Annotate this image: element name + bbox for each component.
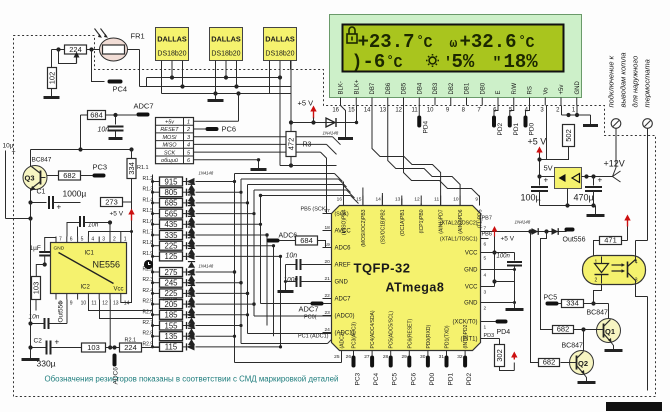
svg-text:C: C	[424, 35, 433, 52]
svg-text:MOSI: MOSI	[162, 135, 177, 141]
svg-text:224: 224	[124, 343, 137, 352]
svg-text:682: 682	[543, 358, 556, 367]
svg-text:15: 15	[356, 197, 362, 203]
svg-text:3: 3	[102, 237, 105, 243]
svg-text:GND: GND	[464, 268, 478, 274]
svg-text:общий: общий	[161, 157, 178, 164]
svg-text:GND: GND	[54, 246, 65, 252]
svg-text:10n: 10n	[286, 253, 298, 260]
svg-text:PD1: PD1	[448, 372, 455, 385]
svg-text:2: 2	[113, 237, 116, 243]
svg-text:31: 31	[439, 354, 445, 360]
svg-text:TQFP-32: TQFP-32	[354, 261, 411, 276]
svg-text:PC5: PC5	[392, 372, 399, 385]
svg-text:Обозначения резисторов показан: Обозначения резисторов показаны в соотве…	[45, 375, 339, 384]
svg-text:PD4: PD4	[422, 120, 429, 133]
svg-text:Q1: Q1	[605, 327, 615, 336]
svg-text:805: 805	[164, 188, 178, 197]
svg-text:2: 2	[186, 127, 190, 133]
svg-text:SCK: SCK	[164, 150, 176, 156]
svg-text:684: 684	[90, 111, 103, 120]
svg-text:PD0(RXD): PD0(RXD)	[426, 325, 432, 349]
svg-text:18: 18	[325, 225, 331, 231]
svg-text:15: 15	[348, 108, 355, 114]
svg-text:Vo: Vo	[543, 87, 549, 95]
svg-text:100n: 100n	[497, 254, 511, 260]
svg-text:+5 V: +5 V	[110, 211, 124, 218]
svg-text:(XTAL1/TOSC1): (XTAL1/TOSC1)	[440, 237, 478, 243]
svg-text:472: 472	[287, 138, 296, 151]
svg-text:подключение к: подключение к	[607, 55, 616, 107]
svg-text:155: 155	[164, 321, 178, 330]
svg-text:Q3: Q3	[25, 174, 35, 183]
svg-text:16: 16	[337, 197, 343, 203]
svg-text:4: 4	[484, 273, 487, 279]
svg-text:302: 302	[495, 349, 504, 362]
svg-text:PC5(ADC5/SCL): PC5(ADC5/SCL)	[389, 311, 395, 349]
svg-text:DB2: DB2	[449, 82, 455, 94]
svg-text:PD1(TXD): PD1(TXD)	[445, 325, 451, 348]
svg-text:685: 685	[164, 199, 178, 208]
svg-text:AREF: AREF	[335, 263, 351, 269]
svg-text:PC6: PC6	[410, 372, 417, 385]
svg-text:PC3: PC3	[355, 372, 362, 385]
svg-text:23: 23	[325, 310, 331, 316]
svg-text:RESET: RESET	[160, 127, 179, 133]
svg-text:DB1: DB1	[465, 82, 471, 94]
svg-text:PC1 (ADC1): PC1 (ADC1)	[298, 334, 329, 340]
svg-text:BC847: BC847	[562, 343, 584, 350]
svg-text:1N4148: 1N4148	[515, 220, 531, 225]
svg-text:9: 9	[475, 197, 478, 203]
svg-text:682: 682	[557, 325, 570, 334]
svg-text:+: +	[55, 338, 60, 347]
svg-text:C: C	[526, 35, 535, 52]
svg-text:PC0(: PC0(	[304, 315, 317, 321]
svg-text:+: +	[544, 176, 549, 185]
svg-text:135: 135	[164, 332, 178, 341]
svg-text:PB6: PB6	[482, 232, 492, 238]
svg-text:-6: -6	[363, 51, 386, 73]
svg-text:Out556: Out556	[563, 237, 586, 244]
svg-text:R/W: R/W	[512, 83, 518, 95]
svg-text:(MISO)PB4: (MISO)PB4	[342, 209, 348, 235]
svg-text:273: 273	[105, 198, 118, 207]
svg-text:PC4: PC4	[373, 372, 380, 385]
svg-text:471: 471	[604, 236, 617, 245]
svg-text:100µ: 100µ	[521, 193, 541, 203]
svg-text:NE556: NE556	[93, 260, 121, 270]
svg-text:ω: ω	[450, 36, 458, 51]
svg-text:PC3(ADC3): PC3(ADC3)	[352, 322, 358, 349]
svg-text:IC1: IC1	[85, 251, 95, 257]
svg-text:PC3: PC3	[93, 163, 108, 172]
svg-text:MISO: MISO	[162, 143, 177, 149]
svg-text:102: 102	[48, 72, 57, 85]
svg-text:12: 12	[395, 108, 402, 114]
svg-text:+5v: +5v	[165, 120, 175, 126]
svg-text:115: 115	[165, 343, 178, 352]
svg-text:GND: GND	[575, 81, 581, 95]
svg-text:18%: 18%	[504, 51, 539, 73]
svg-text:(T1)PD5: (T1)PD5	[478, 209, 484, 228]
svg-text:29: 29	[401, 354, 407, 360]
svg-text:275: 275	[164, 268, 178, 277]
svg-text:(AIN1)PD7: (AIN1)PD7	[439, 209, 445, 233]
svg-text:): )	[352, 53, 363, 73]
svg-text:ATmega8: ATmega8	[386, 281, 445, 295]
svg-text:682: 682	[63, 171, 76, 180]
svg-text:11: 11	[412, 108, 419, 114]
svg-text:245: 245	[164, 279, 178, 288]
svg-text:1µF: 1µF	[30, 245, 41, 252]
svg-text:4: 4	[91, 237, 94, 243]
svg-text:103: 103	[87, 343, 100, 352]
svg-text:(AIN0)PD6: (AIN0)PD6	[458, 209, 464, 233]
svg-text:GND: GND	[335, 280, 349, 286]
svg-text:(SS/OC1B)PB2: (SS/OC1B)PB2	[380, 209, 386, 244]
svg-text:+: +	[12, 149, 16, 156]
svg-text:435: 435	[164, 220, 178, 229]
svg-text:565: 565	[164, 209, 178, 218]
svg-text:5: 5	[484, 256, 487, 262]
svg-text:DALLAS: DALLAS	[157, 35, 187, 44]
svg-text:32: 32	[457, 354, 463, 360]
svg-text:103: 103	[32, 282, 41, 295]
svg-text:DB7: DB7	[370, 82, 376, 94]
svg-text:PD0: PD0	[429, 372, 436, 385]
svg-text:C: C	[394, 55, 403, 72]
svg-text:1N4148: 1N4148	[199, 264, 214, 269]
svg-text:915: 915	[164, 177, 178, 186]
svg-text:ADC6: ADC6	[279, 233, 298, 240]
svg-text:470µ: 470µ	[574, 193, 594, 203]
svg-text:PD4: PD4	[497, 329, 511, 336]
svg-text:DS18b20: DS18b20	[211, 51, 240, 58]
svg-text:+23.7: +23.7	[358, 31, 415, 53]
svg-text:+32.6: +32.6	[460, 31, 517, 53]
svg-text:1: 1	[124, 237, 127, 243]
svg-text:(ICP1)PB0: (ICP1)PB0	[419, 209, 425, 233]
svg-text:PD1: PD1	[513, 122, 520, 135]
svg-text:BLK-: BLK-	[339, 81, 345, 94]
svg-text:VCC: VCC	[465, 251, 478, 257]
svg-text:1: 1	[187, 120, 190, 126]
svg-text:GND: GND	[464, 301, 478, 307]
svg-text:(ADC0): (ADC0)	[335, 314, 355, 320]
svg-text:11: 11	[91, 301, 96, 307]
svg-text:11: 11	[434, 197, 439, 203]
svg-text:BLK+: BLK+	[354, 79, 360, 94]
svg-text:12: 12	[414, 197, 420, 203]
svg-text:334: 334	[127, 162, 136, 175]
svg-text:+5 V: +5 V	[528, 137, 547, 147]
svg-text:28: 28	[383, 354, 389, 360]
svg-text:DS18b20: DS18b20	[157, 51, 186, 58]
svg-text:10n: 10n	[98, 127, 110, 134]
svg-text:7: 7	[59, 237, 62, 243]
svg-text:13: 13	[380, 108, 387, 114]
svg-text:17: 17	[325, 208, 331, 214]
svg-text:PD0: PD0	[529, 122, 536, 135]
svg-text:2: 2	[595, 278, 598, 284]
svg-text:502: 502	[564, 129, 573, 142]
svg-text:VCC: VCC	[465, 285, 478, 291]
svg-text:3: 3	[484, 290, 487, 296]
svg-text:ADC7: ADC7	[335, 297, 352, 303]
svg-text:R1.1: R1.1	[137, 165, 149, 171]
svg-text:6: 6	[484, 242, 487, 248]
svg-text:+5v: +5v	[559, 85, 565, 95]
svg-text:E: E	[496, 90, 502, 94]
svg-text:PC4: PC4	[113, 85, 128, 94]
svg-text:FR1: FR1	[131, 32, 145, 41]
svg-text:+12V: +12V	[604, 159, 625, 169]
svg-text:PC6: PC6	[222, 125, 237, 134]
svg-text:Vcc: Vcc	[113, 287, 123, 293]
svg-text:5: 5	[81, 237, 84, 243]
svg-text:+5 V: +5 V	[298, 99, 314, 108]
svg-text:(INT0)PD2: (INT0)PD2	[463, 324, 469, 348]
svg-text:Q2: Q2	[578, 359, 588, 368]
svg-text:BC847: BC847	[587, 310, 609, 317]
svg-text:5%: 5%	[452, 51, 475, 73]
svg-text:14: 14	[376, 197, 382, 203]
svg-text:ADC7: ADC7	[299, 305, 319, 314]
svg-text:22: 22	[325, 293, 331, 299]
svg-text:PC5: PC5	[544, 295, 558, 302]
svg-text:6: 6	[70, 237, 73, 243]
svg-text:12: 12	[102, 301, 108, 307]
svg-text:10: 10	[427, 108, 434, 114]
svg-text:": "	[493, 55, 502, 72]
svg-text:14: 14	[364, 108, 371, 114]
svg-text:DB0: DB0	[480, 82, 486, 94]
svg-text:DB5: DB5	[402, 82, 408, 94]
svg-text:PB5 (SCK): PB5 (SCK)	[301, 207, 328, 213]
svg-text:125: 125	[164, 252, 178, 261]
svg-text:225: 225	[164, 242, 178, 251]
svg-text:1N4148: 1N4148	[323, 131, 339, 136]
svg-text:1: 1	[484, 325, 487, 331]
svg-text:1000µ: 1000µ	[63, 189, 87, 199]
svg-text:R3: R3	[303, 142, 312, 149]
svg-text:2: 2	[484, 306, 487, 312]
svg-text:13: 13	[113, 301, 119, 307]
svg-text:для наружного: для наружного	[631, 56, 640, 108]
svg-text:PD2: PD2	[497, 122, 504, 135]
svg-text:DB4: DB4	[417, 82, 423, 94]
svg-text:DALLAS: DALLAS	[211, 35, 241, 44]
svg-text:ADC7: ADC7	[134, 102, 154, 111]
svg-text:DB6: DB6	[386, 82, 392, 94]
svg-text:185: 185	[164, 311, 178, 320]
svg-text:(MOSI/OC2)PB3: (MOSI/OC2)PB3	[361, 209, 367, 246]
svg-text:14: 14	[124, 301, 130, 307]
svg-text:334: 334	[566, 299, 579, 308]
svg-text:224: 224	[69, 45, 82, 54]
svg-text:+: +	[598, 176, 603, 185]
svg-text:DS18b20: DS18b20	[265, 51, 294, 58]
svg-text:C1: C1	[37, 189, 46, 196]
svg-text:5V: 5V	[544, 164, 553, 173]
svg-text:10: 10	[81, 301, 87, 307]
svg-text:24: 24	[325, 327, 331, 333]
svg-text:27: 27	[364, 354, 370, 360]
svg-text:26: 26	[346, 354, 352, 360]
svg-text:330µ: 330µ	[37, 359, 56, 369]
svg-text:DALLAS: DALLAS	[265, 35, 295, 44]
svg-text:ADC6: ADC6	[335, 246, 352, 252]
svg-text:+5 V: +5 V	[501, 236, 515, 243]
svg-text:13: 13	[395, 197, 401, 203]
svg-text:DB3: DB3	[433, 82, 439, 94]
svg-text:Out556: Out556	[58, 301, 65, 323]
svg-text:RS: RS	[528, 86, 534, 94]
svg-text:BC847: BC847	[32, 157, 52, 164]
svg-text:(ADC2): (ADC2)	[340, 331, 346, 348]
svg-text:C2: C2	[34, 338, 43, 345]
svg-text:термостата: термостата	[643, 59, 652, 107]
svg-text:9: 9	[70, 301, 73, 307]
svg-text:PC4(ADC4/SDA): PC4(ADC4/SDA)	[370, 310, 376, 348]
svg-text:1N4148: 1N4148	[199, 171, 214, 176]
svg-text:30: 30	[420, 354, 426, 360]
svg-text:+: +	[57, 203, 62, 212]
svg-text:1N4148: 1N4148	[163, 297, 178, 302]
svg-text:PC6(RESET): PC6(RESET)	[407, 318, 413, 348]
svg-text:PD2: PD2	[466, 372, 473, 385]
svg-text:684: 684	[300, 236, 313, 245]
svg-text:(OC1A)PB1: (OC1A)PB1	[400, 209, 406, 236]
svg-text:335: 335	[164, 231, 178, 240]
svg-text:выводам котла: выводам котла	[619, 52, 628, 107]
svg-text:4: 4	[187, 143, 190, 149]
svg-text:IC2: IC2	[81, 285, 91, 291]
svg-text:16: 16	[332, 108, 339, 114]
svg-text:10: 10	[453, 197, 459, 203]
svg-text:25: 25	[334, 354, 340, 360]
